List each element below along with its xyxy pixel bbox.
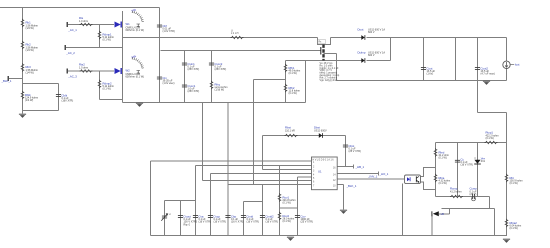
capacitor Cvcc (209, 62, 226, 71)
wire D6 vertical join (390, 38, 392, 61)
resistor Rac1 series (79, 16, 93, 26)
wire ic pin11 right (338, 184, 344, 186)
capacitor Cv4 (225, 214, 243, 223)
diode D2 bridge blue (115, 68, 122, 74)
svg-text:_BLK_1: _BLK_1 (1, 79, 12, 83)
wire Cvin vertical (184, 51, 186, 103)
wire ic pin6 (203, 180, 312, 182)
diode vR (432, 211, 444, 216)
ground right branch (503, 239, 510, 243)
svg-text:(16 V X7R): (16 V X7R) (199, 221, 212, 224)
wire ic pin5 vertical (297, 177, 299, 208)
wire Cout1 vertical (423, 38, 425, 81)
wire Iout vertical top (506, 38, 508, 62)
resistor Rout2 (278, 212, 294, 223)
wire bottom ground rail (151, 235, 507, 237)
resistor R2 mid of input divider (21, 41, 38, 52)
wire damper 1 vertical (99, 25, 101, 48)
wire bottom rail mid (123, 102, 306, 104)
shunt regulator U2 TL431 (474, 156, 485, 164)
wire ic pin9 right (338, 172, 379, 176)
wire AC line 2 (68, 70, 115, 72)
wire output return rail (337, 80, 507, 82)
wire fb tap horizontal (254, 79, 286, 81)
svg-text:2.2 mH: 2.2 mH (231, 33, 239, 35)
wire D6 to corner (367, 60, 391, 62)
wire snubber box top (23, 83, 59, 85)
wire opto collector up (421, 168, 436, 177)
capacitor Cout1 (421, 66, 436, 75)
diode D2 labels W2 (126, 69, 145, 79)
svg-text:(16 V X7R): (16 V X7R) (266, 221, 279, 224)
wire ic pin3 (263, 169, 312, 171)
wire cvout vertical (180, 201, 182, 236)
svg-text:(25V X7R): (25V X7R) (188, 68, 200, 71)
resistor Rled (434, 148, 449, 159)
svg-text:(1/4 W): (1/4 W) (25, 99, 33, 102)
svg-text:(0.1 W): (0.1 W) (439, 182, 447, 185)
svg-text:(16 V X7R): (16 V X7R) (461, 164, 474, 167)
svg-text:_HB_1: _HB_1 (355, 165, 365, 169)
wire opto emitter down (402, 184, 404, 236)
resistor Rfb1 (284, 64, 300, 75)
svg-text:(0.1 W): (0.1 W) (103, 39, 111, 42)
wire gate rail (161, 50, 322, 52)
decor text near D1 (131, 8, 144, 22)
resistor Rtop divider (485, 131, 499, 144)
capacitor Cc (455, 157, 473, 166)
wire input cap vertical (159, 8, 161, 103)
inductor Lf on rail (231, 31, 244, 39)
resistor R4 snubber (21, 91, 38, 102)
wire out cap1 vertical (243, 202, 245, 236)
wire opto input (338, 178, 405, 180)
svg-text:vR: vR (441, 212, 444, 216)
capacitor C2 bus filter (157, 24, 175, 33)
svg-text:_HO_1: _HO_1 (379, 172, 389, 176)
resistor Rbias opto (434, 174, 450, 185)
resistor Rdamp1 (98, 31, 114, 42)
wire rectifier bus vertical (122, 11, 124, 103)
svg-text:(25 V X7R): (25 V X7R) (349, 150, 362, 153)
wire boot horizontal (263, 135, 346, 137)
resistor Rfreq (210, 81, 227, 92)
svg-text:600Vrrm (0.1 W): 600Vrrm (0.1 W) (126, 29, 145, 32)
wire cff vertical (297, 208, 299, 236)
svg-text:600 V: 600 V (368, 54, 375, 57)
capacitor Cvout1 (178, 214, 198, 226)
svg-text:(25V X7R): (25V X7R) (188, 90, 200, 93)
wire ic pin7 (228, 184, 312, 186)
svg-text:(1 kV elec): (1 kV elec) (163, 82, 175, 85)
wire return vertical (336, 54, 338, 81)
node _BLK_1 flag tick (9, 78, 23, 80)
resistor Rbias2 lower (505, 219, 521, 230)
svg-text:(16 V X7R): (16 V X7R) (247, 221, 260, 224)
capacitor Cv6 (260, 214, 278, 223)
resistor R1 top of input divider (21, 19, 38, 30)
resistor Rcomp (450, 187, 463, 198)
svg-text:(4.7 uF max): (4.7 uF max) (481, 73, 495, 76)
wire opto emitter right (421, 182, 436, 190)
svg-text:US1J 600V: US1J 600V (314, 129, 327, 132)
svg-text:(16V X7R): (16V X7R) (62, 100, 74, 103)
svg-text:U1: U1 (318, 170, 322, 174)
capacitor C1 snubber (56, 93, 73, 102)
wire ic pin2 vertical (195, 166, 197, 236)
wire cc column (457, 143, 459, 197)
diode D1 labels W1 (126, 22, 145, 32)
wire ic pin4 vertical (210, 174, 212, 236)
wire out mid vertical (455, 38, 457, 81)
wire led branch vertical (435, 143, 437, 197)
svg-text:(1/4 W): (1/4 W) (26, 49, 34, 52)
capacitor Cff (295, 214, 313, 223)
resistor Rout1 (278, 193, 295, 204)
wire divider top horizontal (436, 142, 507, 144)
wire ic pin4 (211, 173, 312, 175)
wire AC line 1 (68, 24, 115, 26)
svg-text:(0.1 W): (0.1 W) (283, 220, 291, 223)
wire comp lower horizontal (442, 208, 495, 210)
resistor Rboot (285, 126, 298, 137)
wire AC mid line (66, 47, 123, 49)
svg-text:(1/4 W): (1/4 W) (26, 71, 34, 74)
svg-text:600Vrrm (0.1 W): 600Vrrm (0.1 W) (126, 76, 145, 79)
ground input divider (19, 114, 26, 118)
svg-text:(0.1 W): (0.1 W) (510, 227, 518, 230)
wire tl431 anode down (477, 164, 479, 197)
svg-text:41.2 kohm: 41.2 kohm (450, 190, 462, 193)
wire D5 to out corner (367, 37, 507, 39)
diode D6 clamp (358, 51, 386, 63)
svg-text:(1/4 W): (1/4 W) (26, 27, 34, 30)
wire boot cap vertical (345, 136, 347, 167)
diode D1 bridge blue (115, 22, 122, 28)
svg-text:(0.1 W): (0.1 W) (103, 88, 111, 91)
text block spice params (320, 62, 340, 82)
svg-text:1.0 ohm: 1.0 ohm (79, 66, 88, 69)
wire Iout vertical bottom (506, 69, 508, 81)
diode D5 main (358, 28, 386, 40)
svg-text:_AC_3: _AC_3 (67, 75, 77, 79)
resistor Rsense in dip (318, 40, 326, 44)
wire ic pin6 vertical (202, 103, 204, 181)
wire out cap2 vertical (262, 185, 264, 236)
wire Cout2 / sense vertical (477, 38, 479, 113)
svg-text:_AC_1: _AC_1 (67, 28, 77, 32)
wire sense jog vertical (506, 113, 508, 143)
capacitor Cvin2 (182, 84, 199, 93)
capacitor Cvin1 (182, 62, 199, 71)
wire snubber box bottom (23, 110, 59, 112)
wire top rail net VIN-TOP (0, 7, 160, 9)
resistor Rac2 series (79, 63, 93, 73)
wire ic pin2 (196, 165, 312, 167)
svg-text:(0.1 W): (0.1 W) (289, 72, 297, 75)
wire Cvcc vertical (211, 51, 213, 103)
svg-text:(1 kV): (1 kV) (427, 73, 434, 76)
svg-text:_BLK_1: _BLK_1 (346, 184, 357, 188)
wire rout chain vertical (279, 166, 281, 236)
wire vsrc vertical (164, 201, 166, 236)
wire comp to rail vertical (494, 209, 496, 236)
svg-text:Dclmp: Dclmp (358, 51, 366, 55)
ground bottom rail (136, 103, 143, 107)
ground rout chain (287, 237, 294, 241)
wire ic pin5 (298, 176, 312, 178)
current source Iout (503, 61, 520, 68)
wire comp horizontal (436, 196, 490, 198)
resistor Rdamp2 (98, 80, 114, 91)
capacitor Cout2 (475, 66, 495, 75)
svg-text:600 V: 600 V (368, 31, 375, 34)
wire right branch vertical (506, 143, 508, 237)
svg-text:(0.1 W): (0.1 W) (289, 92, 297, 95)
capacitor Ccomp (470, 187, 478, 201)
wire source ground vertical (305, 61, 307, 103)
svg-text:Vgs: 12(typ) limit: Vgs: 12(typ) limit (320, 79, 338, 82)
ground ic pin (340, 210, 347, 214)
optocoupler U4 (405, 175, 421, 184)
capacitor Cv2 (193, 214, 211, 223)
svg-text:431: 431 (481, 160, 486, 163)
svg-text:(1/16 W): (1/16 W) (215, 89, 225, 92)
svg-text:HVLED001A16: HVLED001A16 (313, 158, 335, 161)
voltage source Vt (161, 213, 171, 221)
svg-text:_INV_1: _INV_1 (367, 175, 378, 179)
wire mosfet source stub (324, 53, 337, 55)
svg-text:_AC_2: _AC_2 (65, 51, 75, 55)
capacitor Cv3 (208, 214, 226, 223)
svg-text:1.0 ohm: 1.0 ohm (79, 20, 88, 23)
svg-text:Dout: Dout (358, 28, 364, 32)
svg-text:(0.1 W): (0.1 W) (486, 137, 494, 140)
svg-text:(0.1 W): (0.1 W) (510, 182, 518, 185)
capacitor Cin (157, 76, 175, 85)
wire vsrc top horizontal (165, 200, 196, 202)
wire sense divider vertical (285, 61, 287, 103)
IC U1 controller (312, 157, 338, 190)
wire snubber right vertical (58, 84, 60, 111)
svg-text:(0.1 W): (0.1 W) (439, 157, 447, 160)
svg-text:W2: W2 (126, 69, 131, 73)
wire ic pin1 (151, 160, 312, 162)
decor text near D2 (131, 55, 144, 69)
wire ic pin7 vertical (227, 103, 229, 236)
wire ic gnd vertical (343, 185, 345, 210)
transistor M1 mosfet channel (321, 45, 324, 61)
wire ic pin1 left vertical (150, 161, 152, 236)
wire rout tap horizontal (280, 207, 298, 209)
wire out cap link horizontal (244, 201, 263, 203)
diode Dboot (314, 126, 327, 138)
wire tl431 cathode (477, 143, 479, 160)
svg-text:110.1 kR: 110.1 kR (285, 129, 295, 132)
svg-text:(25 V X7R): (25 V X7R) (301, 221, 314, 224)
svg-text:Iout: Iout (515, 63, 520, 67)
resistor R3 lower of input divider (21, 63, 38, 74)
wire rail to diode D5 (331, 37, 363, 39)
wire vR diode stub (439, 209, 450, 214)
capacitor Cv5 (241, 214, 259, 223)
svg-text:W1: W1 (126, 22, 131, 26)
svg-text:Rip: 0: Rip: 0 (184, 223, 191, 226)
svg-text:(25V X7R): (25V X7R) (215, 68, 227, 71)
wire left divider vertical (22, 8, 24, 114)
capacitor Cboot (343, 144, 361, 153)
wire damper 2 vertical (99, 71, 101, 100)
wire ic pin3 vertical (262, 136, 264, 170)
wire ic pin8 right (338, 165, 354, 169)
svg-text:(16 V X7R): (16 V X7R) (214, 221, 227, 224)
ground output rail (483, 81, 490, 85)
svg-text:(1 kV X7R): (1 kV X7R) (163, 30, 175, 33)
resistor Rfb2 (284, 84, 300, 95)
wire fb tap vertical (253, 80, 255, 185)
wire comp corner vertical (489, 197, 491, 209)
resistor Rb lower divider (505, 174, 522, 185)
svg-text:(16 V X7R): (16 V X7R) (231, 221, 244, 224)
wire sense jog horizontal (478, 112, 507, 114)
wire bottom rail left (100, 99, 123, 101)
wire rail B+ (123, 37, 318, 39)
wire sense dip (318, 38, 331, 45)
wire vR diode left vertical (431, 214, 433, 236)
svg-text:(25 V): (25 V) (470, 193, 477, 196)
wire source node horizontal (286, 60, 363, 62)
svg-text:(0.1 W): (0.1 W) (283, 202, 291, 205)
